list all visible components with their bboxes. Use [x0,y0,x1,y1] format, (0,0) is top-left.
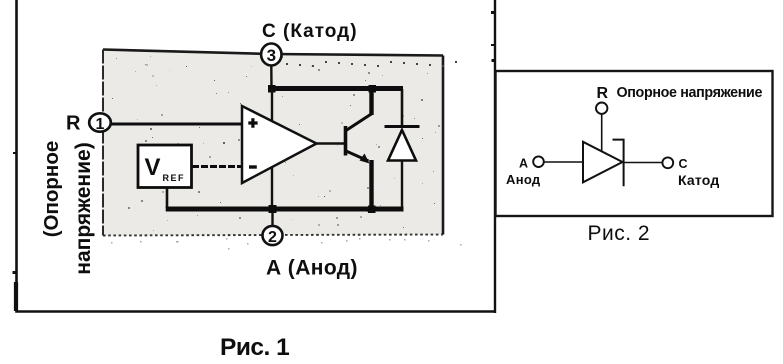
transistor Q1 [346,114,373,164]
outer frame of Fig.1 (left, bottom, right edges) [16,0,495,313]
svg-text:Рис. 1: Рис. 1 [220,334,289,361]
diode D1 [385,127,420,161]
emitter wire down to rail [369,160,373,209]
pin 2 circle [263,226,283,246]
shaded IC body (gray stippled box) [103,50,443,236]
scan tick artifacts on frame lines [13,11,495,274]
svg-text:Катод: Катод [678,172,719,188]
C terminal circle [662,157,673,168]
svg-text:Рис. 2: Рис. 2 [588,222,651,245]
svg-text:А (Анод): А (Анод) [266,257,358,280]
wire Vref bottom to anode rail [166,188,169,208]
svg-text:С (Катод): С (Катод) [262,21,358,42]
collector wire up to rail [369,89,373,115]
svg-text:Опорное напряжение: Опорное напряжение [617,85,763,101]
Fig.2 box [496,71,773,216]
svg-text:1: 1 [96,116,105,133]
diode branch: stub from rail [401,89,404,126]
svg-text:Анод: Анод [506,172,541,187]
Vref box [138,145,192,188]
wire op-amp output to transistor base [316,142,344,145]
svg-text:напряжение): напряжение) [72,142,95,274]
top cathode rail (thick) [269,86,403,91]
junction: collector/rail [369,85,377,93]
op-amp U1 triangle [242,106,317,183]
svg-text:2: 2 [268,229,277,246]
pin 3 circle [261,44,281,66]
R terminal circle [596,103,607,114]
cathode bar with hook [613,140,624,187]
noise speckles in gray box [111,56,462,250]
svg-text:А: А [519,157,528,171]
svg-text:R: R [597,85,609,102]
A terminal circle [533,156,544,167]
svg-text:3: 3 [267,46,276,65]
svg-text:REF: REF [163,173,186,183]
pin 1 circle [89,113,111,133]
junction: pin2/rail [269,205,277,213]
R lead [601,114,603,152]
wire pin1 to op-amp + input [112,123,243,126]
wire Vref to op-amp - input (dashed look) [192,165,242,168]
op-amp power line (vertical through triangle) [271,89,273,208]
svg-text:С: С [679,157,688,171]
junction: emitter/rail [368,206,376,214]
bottom anode rail (thick) [166,207,404,212]
junction: pin3/rail [268,85,276,93]
svg-text:(Опорное: (Опорное [40,141,63,238]
fig2 triangle [583,142,623,183]
svg-text:R: R [66,113,81,135]
A terminal: wire [544,161,583,163]
svg-text:V: V [145,154,161,181]
pin 2 wire [271,211,273,226]
C terminal: wire [624,162,662,164]
diode anode wire down [401,161,403,209]
pin 3 wire to top rail [270,65,273,88]
